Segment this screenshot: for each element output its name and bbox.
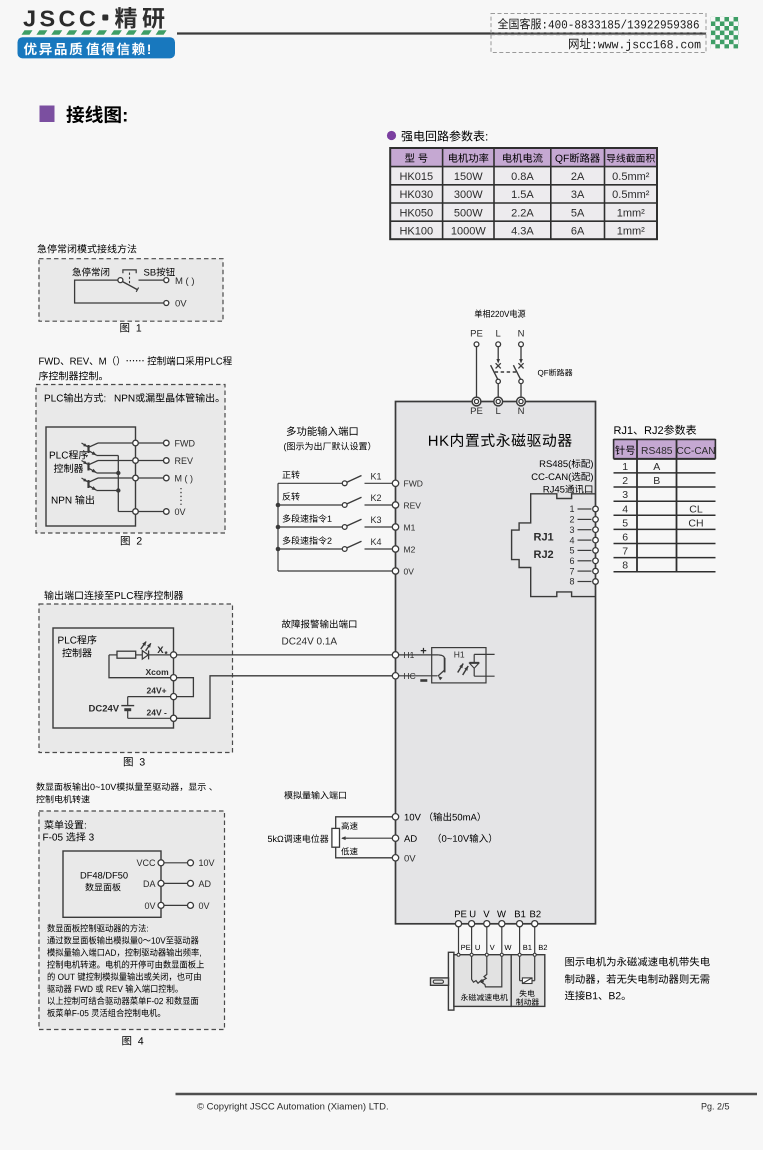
svg-text:K4: K4 (371, 537, 382, 547)
service phone dashed box (491, 14, 706, 33)
RJ table header background (614, 440, 716, 459)
figure4 output terminal 10V (188, 860, 194, 866)
logo green dashed stripe (22, 30, 167, 35)
brake coil wires (519, 956, 521, 981)
label (图示为出厂默认设置） (284, 442, 370, 452)
svg-text:3: 3 (569, 525, 574, 535)
svg-text:0.5mm²: 0.5mm² (612, 189, 650, 201)
figure4 display panel box (63, 851, 161, 917)
wire V to motor (486, 927, 488, 953)
svg-text:1mm²: 1mm² (617, 226, 645, 238)
figure2 intro text line2 (39, 371, 102, 380)
wire W to motor (501, 927, 503, 953)
svg-text:4: 4 (569, 535, 574, 545)
drive bottom terminal B1 (517, 921, 523, 927)
svg-text:0.8A: 0.8A (511, 171, 534, 183)
power table outer border (390, 148, 657, 239)
figure3 left return wire (109, 655, 170, 678)
footer rule (176, 1093, 758, 1096)
switch K3 (342, 525, 347, 530)
RJ table title RJ1、RJ2参数表 (614, 425, 696, 435)
svg-text:1.5A: 1.5A (511, 189, 534, 201)
svg-text:DC24V: DC24V (89, 704, 120, 715)
svg-text:10V: 10V (199, 858, 215, 868)
power table header background (390, 148, 657, 167)
drive title HK内置式永磁驱动器 (429, 433, 572, 447)
svg-text:1000W: 1000W (451, 226, 486, 238)
figure4 panel terminal VCC (158, 860, 164, 866)
wire 24V- to HC (177, 676, 393, 719)
wire jumper Xcom to 24V+ (177, 678, 194, 697)
drive label AD （0~10V输入） (404, 835, 417, 842)
wire M2 right segment (365, 548, 393, 550)
drive terminal M1 (392, 524, 398, 530)
svg-text:HK030: HK030 (399, 189, 433, 201)
svg-text:RJ2: RJ2 (534, 549, 554, 561)
figure2 outer terminal 0V (164, 509, 170, 515)
motor star point (480, 979, 484, 983)
LED D1 (136, 654, 143, 656)
node junction REV (276, 503, 281, 508)
optocoupler internal wires (474, 653, 494, 655)
svg-text:N: N (518, 406, 525, 417)
svg-text:0V: 0V (175, 507, 186, 517)
potentiometer wiper arrow (342, 837, 349, 839)
figure4 label DF48/DF50 数显面板 (81, 872, 128, 879)
supply terminal N (519, 342, 524, 347)
svg-text:M ( ): M ( ) (175, 276, 195, 287)
figure1 terminal 0V (164, 301, 169, 306)
label 低速 (341, 847, 357, 855)
drive terminal H1 (392, 652, 398, 658)
figure3 dashed frame (39, 604, 233, 753)
label 故障报警输出端口 (282, 619, 356, 628)
LED emission arrows (141, 642, 146, 649)
figure2 caption 图 2 (121, 536, 142, 545)
label 5kΩ调速电位器 (268, 834, 329, 842)
drive bottom terminal PE (455, 921, 461, 927)
optocoupler light arrows (458, 664, 464, 673)
svg-text:3A: 3A (571, 189, 585, 201)
svg-text:VCC: VCC (136, 858, 156, 868)
motor winding U lead (472, 956, 482, 983)
figure4 label F-05 选择 3 (43, 832, 93, 841)
power table header cells (405, 153, 427, 162)
brake coil symbol (522, 978, 532, 984)
svg-text:5A: 5A (571, 207, 585, 219)
terminal Xcom (171, 675, 177, 681)
label 正转 (282, 471, 299, 479)
svg-text:RS485: RS485 (641, 446, 673, 457)
svg-text:1: 1 (569, 504, 574, 514)
labels PE U V W B1 B2 above bottom edge (455, 911, 466, 918)
svg-text:A: A (653, 461, 660, 473)
svg-text:PE: PE (470, 329, 483, 340)
svg-text:DC24V 0.1A: DC24V 0.1A (282, 637, 338, 648)
figure4 caption 图 4 (122, 1036, 143, 1045)
resistor in X* branch (109, 654, 117, 656)
svg-text:K3: K3 (371, 515, 382, 525)
figure3 caption 图 3 (124, 757, 145, 766)
drive terminal REV (392, 502, 398, 508)
input bus wire (277, 483, 279, 571)
svg-text:M2: M2 (404, 544, 416, 554)
drive bottom terminal B2 (532, 921, 538, 927)
svg-text:2: 2 (569, 515, 574, 525)
breaker QF pole L (497, 347, 499, 360)
terminal X* (171, 652, 177, 658)
website text (569, 38, 700, 51)
figure2 wire to M (138, 477, 163, 479)
svg-text:0V: 0V (175, 299, 187, 310)
wire PE to drive (476, 347, 478, 398)
svg-text:K2: K2 (371, 493, 382, 503)
supply terminal PE (474, 342, 479, 347)
svg-text:0.5mm²: 0.5mm² (612, 171, 650, 183)
motor shaft (431, 978, 449, 985)
logo text 精研 (115, 7, 164, 29)
drive terminal PE double (472, 397, 481, 406)
power table title 强电回路参数表: (402, 130, 488, 141)
node junction M2 (276, 547, 281, 552)
RJ table header border (614, 438, 716, 440)
figure4 output terminal 0V (188, 902, 194, 908)
drive terminal 0V (392, 568, 398, 574)
svg-text:24V+: 24V+ (147, 686, 167, 696)
RJ table column lines (636, 439, 638, 572)
optocoupler U-H1 box (432, 648, 486, 683)
figure2 inner terminal 0V (133, 509, 139, 515)
svg-text:M1: M1 (404, 522, 416, 532)
section bullet square (40, 106, 55, 123)
drive terminal L double (494, 397, 503, 406)
power table bullet (387, 131, 396, 140)
switch K2 (342, 503, 347, 508)
potentiometer 5k (332, 828, 340, 847)
svg-text:1mm²: 1mm² (617, 207, 645, 219)
svg-text:2A: 2A (571, 171, 585, 183)
figure2 label PLC程序控制器 (50, 450, 88, 459)
logo blue slogan box (18, 37, 176, 58)
figure4 output terminal AD (188, 880, 194, 886)
svg-text:Pg. 2/5: Pg. 2/5 (701, 1102, 730, 1112)
logo dot (102, 15, 108, 21)
svg-text:8: 8 (569, 577, 574, 587)
svg-text:6: 6 (569, 556, 574, 566)
label 多段速指令1 (283, 514, 332, 522)
label QF断路器 (538, 369, 573, 377)
figure2 label NPN 输出 (52, 495, 94, 504)
svg-text:3: 3 (622, 489, 628, 501)
svg-text:7: 7 (622, 546, 628, 558)
website dashed box (491, 35, 706, 53)
optocoupler LED (473, 654, 475, 662)
svg-text:1: 1 (622, 461, 628, 473)
wire U to motor (471, 927, 473, 953)
svg-text:2.2A: 2.2A (511, 207, 534, 219)
figure2 label PLC输出方式: (45, 393, 106, 402)
label 多段速指令2 (283, 536, 332, 544)
label 高速 (342, 822, 358, 830)
terminal 24V- (171, 715, 177, 721)
figure2 outer terminal M (164, 475, 170, 481)
RJ45 connector outline (512, 494, 596, 597)
figure4 pin 0V wire (164, 904, 188, 906)
drive terminal 0V analog (392, 855, 398, 861)
svg-text:H1: H1 (454, 650, 465, 660)
svg-text:0V: 0V (199, 901, 210, 911)
wire PE to motor (458, 927, 460, 953)
drive terminal FWD (392, 480, 398, 486)
power table body background (390, 167, 657, 240)
figure2 wire to 0V (138, 511, 163, 513)
logo slogan text 优异品质 值得信赖! (24, 42, 82, 55)
svg-text:JSCC: JSCC (23, 6, 99, 32)
svg-text:N: N (518, 329, 525, 340)
svg-text:HK015: HK015 (399, 171, 433, 183)
svg-text:7: 7 (569, 566, 574, 576)
svg-text:6: 6 (622, 532, 628, 544)
figure1 wire to M terminal (139, 279, 164, 281)
figure1 switch SB contact (118, 278, 123, 283)
svg-text:5: 5 (622, 517, 628, 529)
figure2 PLC controller box (46, 427, 136, 526)
svg-text:AD: AD (199, 879, 212, 889)
wire FWD left segment (278, 482, 342, 484)
motor terminal circles (457, 953, 460, 956)
wire 24V+ to battery (128, 696, 171, 698)
figure2 wire to REV (138, 460, 163, 462)
label 单相220V电源 (475, 309, 526, 317)
node emitter junction 1 (116, 471, 120, 475)
svg-text:B: B (653, 475, 660, 487)
svg-text:M ( ): M ( ) (175, 474, 194, 484)
wire FWD right segment (365, 482, 393, 484)
supply terminal L (496, 342, 501, 347)
figure1 dashed frame (39, 259, 223, 322)
figure2 emitter bus (117, 456, 119, 512)
wire M1 right segment (365, 526, 393, 528)
label 多功能输入端口 (287, 426, 358, 436)
figure1 label 急停常闭 (72, 267, 109, 276)
figure2 outer terminal FWD (164, 440, 170, 446)
svg-text:5: 5 (569, 546, 574, 556)
svg-text:8: 8 (622, 560, 628, 572)
header rule line (177, 32, 706, 34)
svg-text:HK050: HK050 (399, 207, 433, 219)
transistor Q1 (82, 443, 133, 456)
RJ table row lines (614, 458, 716, 460)
power table row lines (390, 166, 657, 168)
svg-text:Xcom: Xcom (146, 667, 170, 677)
breaker QF pole N (520, 347, 522, 360)
figure4 intro line1 (36, 782, 211, 791)
drive terminal M2 (392, 546, 398, 552)
breaker link dashed (495, 371, 518, 373)
svg-text:150W: 150W (454, 171, 483, 183)
svg-text:FWD: FWD (404, 479, 423, 489)
figure2 intro text line1 (39, 356, 232, 366)
svg-text:© Copyright JSCC Automation (X: © Copyright JSCC Automation (Xiamen) LTD… (197, 1102, 389, 1113)
figure4 pin VCC wire (164, 862, 188, 864)
figure4 panel terminal DA (158, 880, 164, 886)
motor body 永磁减速电机 (454, 955, 511, 1007)
wire AD (349, 837, 393, 839)
figure2 inner terminal M (133, 475, 139, 481)
figure2 dotted continuation (180, 488, 182, 506)
figure2 inner terminal REV (133, 458, 139, 464)
figure4 dashed frame (39, 811, 225, 1030)
wire B1 to motor (519, 927, 521, 953)
terminal 24V+ (171, 694, 177, 700)
node junction M1 (276, 525, 281, 530)
svg-text:4.3A: 4.3A (511, 226, 534, 238)
drive bottom terminal W (499, 921, 505, 927)
svg-text:RJ1: RJ1 (534, 532, 554, 544)
wire 24V- from battery (128, 717, 171, 719)
label CC-CAN(选配) (532, 472, 593, 482)
motor shaft keyway (433, 980, 443, 983)
figure3 PLC controller box (53, 628, 174, 728)
figure1 wire left loop (75, 280, 164, 303)
wire 10V (336, 817, 393, 829)
label 反转 (282, 492, 299, 500)
label 永磁减速电机 (461, 994, 508, 1001)
label RS485(标配) (540, 459, 593, 469)
transistor Q2 (82, 461, 133, 474)
drive label 10V （输出50mA） (405, 812, 480, 821)
drive terminal HC (392, 673, 398, 679)
svg-text:CC-CAN: CC-CAN (677, 446, 716, 457)
svg-text:300W: 300W (454, 189, 483, 201)
optocoupler minus mark (420, 679, 427, 682)
drive bottom terminal U (469, 921, 475, 927)
svg-text:DA: DA (143, 879, 156, 889)
wire 0V analog (336, 847, 393, 858)
figure3 title 输出端口连接至PLC程序控制器 (44, 591, 183, 600)
figure2 outer terminal REV (164, 458, 170, 464)
switch K1 (342, 481, 347, 486)
brake box 失电制动器 (511, 955, 545, 1007)
wire B2 to motor (534, 927, 536, 953)
svg-text:6A: 6A (571, 226, 585, 238)
figure1 push button actuator (129, 273, 131, 286)
RJ table header cells (615, 445, 635, 454)
figure2 wire to FWD (138, 442, 163, 444)
svg-text:REV: REV (175, 456, 194, 466)
figure2 bus to 0V wire (118, 511, 132, 513)
figure1 label SB按钮 (144, 267, 175, 276)
figure4 pin DA wire (164, 882, 188, 884)
wire REV right segment (365, 504, 393, 506)
figure4 instructions paragraph (47, 924, 148, 932)
motor winding V lead (482, 956, 487, 981)
svg-text:K1: K1 (371, 471, 382, 481)
svg-text:24V -: 24V - (147, 707, 167, 717)
power table column lines (442, 148, 444, 239)
svg-text:0V: 0V (404, 853, 416, 864)
section title 接线图: (66, 106, 126, 124)
svg-text:FWD: FWD (175, 439, 196, 449)
drive terminal N double (517, 397, 526, 406)
drive terminal AD (392, 835, 398, 841)
small labels PE U V W B1 B2 at motor (461, 945, 470, 950)
green checker ornament (711, 17, 739, 49)
motor flange (448, 952, 454, 1010)
svg-text:CH: CH (688, 517, 703, 529)
node emitter junction 2 (116, 488, 120, 492)
figure2 label NPN或漏型晶体管输出。 (115, 393, 219, 402)
drive terminal 10V (392, 814, 398, 820)
figure4 intro line2 (36, 795, 89, 803)
figure2 inner terminal FWD (133, 440, 139, 446)
svg-text:X: X (157, 645, 164, 656)
service phone text (498, 18, 699, 29)
svg-text:HK100: HK100 (399, 226, 433, 238)
svg-text:500W: 500W (454, 207, 483, 219)
wire 0V input (278, 570, 392, 572)
figure1 terminal M (164, 278, 169, 283)
note text right of motor (565, 957, 709, 967)
wire M2 left segment (278, 548, 342, 550)
figure1 title 急停常闭模式接线方法 (37, 244, 136, 253)
label 模拟量输入端口 (284, 791, 346, 799)
figure1 caption 图 1 (120, 323, 141, 332)
svg-text:CL: CL (689, 503, 703, 515)
wire X* to H1 (177, 654, 393, 656)
svg-text:2: 2 (622, 475, 628, 487)
svg-text:4: 4 (622, 503, 628, 515)
figure4 label 菜单设置: (44, 820, 86, 829)
figure2 dashed frame (36, 385, 225, 534)
drive bottom terminal V (484, 921, 490, 927)
motor winding W lead (482, 956, 502, 987)
svg-text:L: L (496, 329, 501, 340)
switch K4 (342, 547, 347, 552)
battery DC24V (127, 697, 129, 706)
label RJ45通讯口 (544, 485, 593, 494)
label 失电制动器 (520, 990, 535, 997)
svg-text:0V: 0V (144, 901, 155, 911)
svg-text:REV: REV (404, 500, 422, 510)
figure4 panel terminal 0V (158, 902, 164, 908)
transistor Q3 (82, 478, 133, 491)
svg-text:PE: PE (470, 406, 483, 417)
wire REV left segment (278, 504, 342, 506)
svg-text:L: L (496, 406, 501, 417)
figure3 label PLC程序控制器 (58, 635, 96, 644)
drive unit HK box (396, 402, 596, 924)
phototransistor (399, 654, 439, 656)
wire M1 left segment (278, 526, 342, 528)
svg-text:0V: 0V (404, 566, 415, 576)
